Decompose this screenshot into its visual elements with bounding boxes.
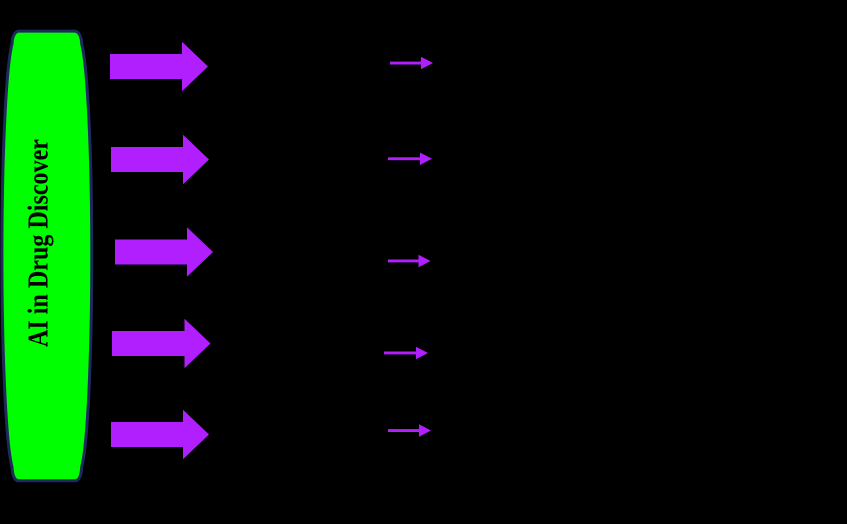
cylinder shape: AI in Drug Discover bbox=[2, 31, 92, 481]
small arrow 3 bbox=[388, 255, 431, 267]
small arrow 5 bbox=[388, 424, 431, 436]
big arrow 2 bbox=[111, 135, 209, 184]
big arrow 5 bbox=[111, 410, 209, 459]
big arrow 3 bbox=[115, 227, 213, 276]
big arrow 4 bbox=[112, 319, 211, 368]
small arrow 4 bbox=[384, 347, 428, 359]
small arrow 2 bbox=[388, 153, 432, 165]
big arrow 1 bbox=[110, 42, 208, 91]
small arrow 1 bbox=[390, 57, 433, 69]
svg-text:AI in Drug Discover: AI in Drug Discover bbox=[23, 139, 55, 347]
